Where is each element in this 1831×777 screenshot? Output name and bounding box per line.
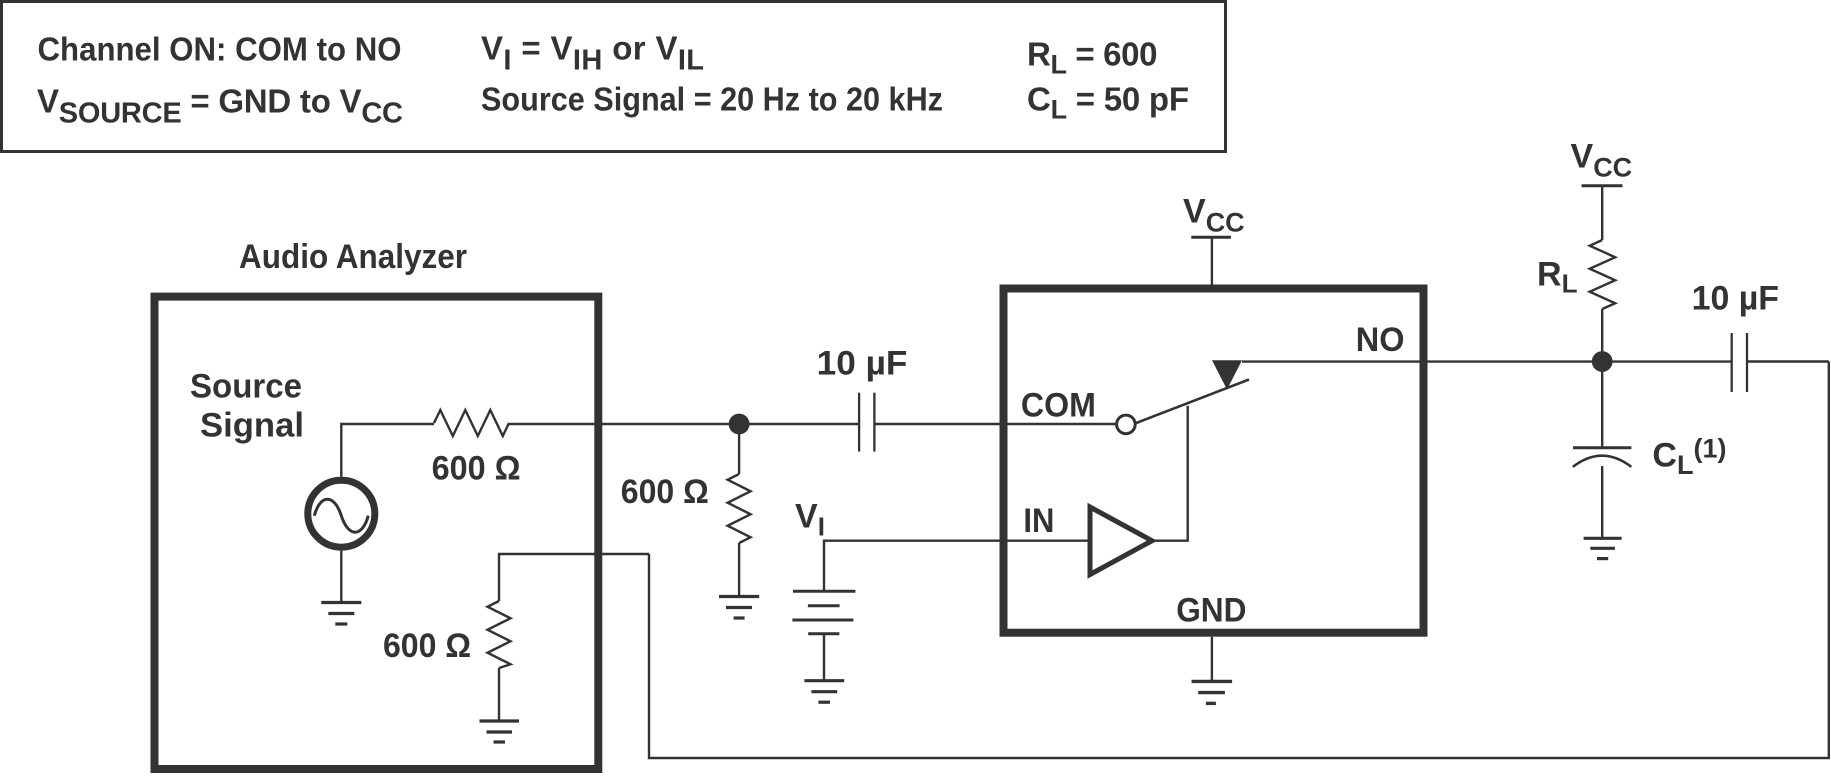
wire VI to IN xyxy=(824,541,1090,591)
svg-text:GND: GND xyxy=(1176,591,1246,629)
svg-text:Audio Analyzer: Audio Analyzer xyxy=(239,238,467,276)
capacitor CL polarized xyxy=(1573,446,1631,449)
wire shunt to ground xyxy=(738,543,740,597)
wire shunt to ground xyxy=(498,668,500,721)
VCC bar (DUT) xyxy=(1191,236,1231,239)
svg-text:Source: Source xyxy=(190,368,302,406)
switch pole circle xyxy=(1117,415,1136,434)
capacitor 10uF output xyxy=(1732,333,1747,392)
parameter note box xyxy=(2,2,1226,152)
svg-text:600 Ω: 600 Ω xyxy=(621,473,709,511)
svg-text:Channel ON: COM to NO: Channel ON: COM to NO xyxy=(38,31,402,68)
wire CL to ground xyxy=(1601,466,1603,538)
svg-text:Source Signal = 20 Hz to 20 kH: Source Signal = 20 Hz to 20 kHz xyxy=(481,81,943,118)
svg-text:10 µF: 10 µF xyxy=(817,344,908,382)
wire VCC to RL xyxy=(1601,186,1603,240)
ground (shunt) xyxy=(719,597,759,619)
wire source top to resistor xyxy=(341,424,434,477)
svg-text:600 Ω: 600 Ω xyxy=(383,627,471,665)
wire analyzer shunt top xyxy=(499,554,649,601)
VCC bar (RL) xyxy=(1582,184,1623,187)
wire source bottom to ground xyxy=(340,551,342,603)
output node xyxy=(1592,351,1613,372)
switch throw triangle xyxy=(1212,360,1242,389)
source V1 sine generator xyxy=(308,480,375,547)
junction node xyxy=(729,414,750,435)
ground (CL) xyxy=(1584,538,1622,558)
resistor 600ohm analyzer shunt xyxy=(488,601,511,668)
ground (DUT) xyxy=(1192,681,1233,703)
wire resistor to junction to cap xyxy=(509,423,859,425)
capacitor 10uF input xyxy=(859,393,874,452)
wire junction down to shunt resistor xyxy=(738,424,740,474)
wire NO out xyxy=(1242,360,1732,362)
ground (source) xyxy=(321,603,361,625)
resistor 600ohm series xyxy=(434,410,509,436)
wire RL to node xyxy=(1601,309,1603,362)
battery VI xyxy=(792,591,855,634)
wire node down to CL xyxy=(1601,362,1603,448)
switch lever xyxy=(1136,380,1249,424)
resistor 600ohm shunt xyxy=(728,474,751,543)
wire cap out to right loop xyxy=(1747,360,1829,362)
wire battery to ground xyxy=(823,634,825,681)
buffer driver xyxy=(1090,507,1152,575)
DUT box xyxy=(1004,289,1424,633)
wire VCC to DUT xyxy=(1211,237,1213,284)
return wire bottom loop xyxy=(649,362,1829,759)
ground (analyzer shunt) xyxy=(480,721,520,742)
wire buffer out to lever xyxy=(1152,406,1188,541)
ground (battery) xyxy=(804,681,844,703)
svg-text:10 µF: 10 µF xyxy=(1692,280,1779,318)
Audio Analyzer box xyxy=(155,297,599,769)
resistor RL xyxy=(1590,240,1616,309)
wire cap to DUT COM xyxy=(874,423,1115,425)
svg-text:Signal: Signal xyxy=(200,407,304,445)
svg-text:600 Ω: 600 Ω xyxy=(432,450,521,488)
svg-text:IN: IN xyxy=(1023,502,1054,540)
svg-text:COM: COM xyxy=(1021,386,1096,424)
svg-text:NO: NO xyxy=(1356,321,1405,359)
wire GND down xyxy=(1211,637,1213,681)
